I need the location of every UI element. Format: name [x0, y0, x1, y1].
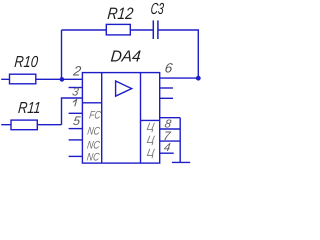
svg-text:NC: NC: [86, 140, 101, 152]
svg-text:R10: R10: [14, 53, 39, 71]
svg-text:C3: C3: [150, 0, 165, 18]
svg-text:R12: R12: [107, 4, 134, 23]
svg-text:NC: NC: [87, 126, 102, 138]
svg-text:NC: NC: [86, 151, 101, 163]
svg-text:R11: R11: [17, 99, 41, 117]
svg-text:DA4: DA4: [110, 48, 142, 66]
